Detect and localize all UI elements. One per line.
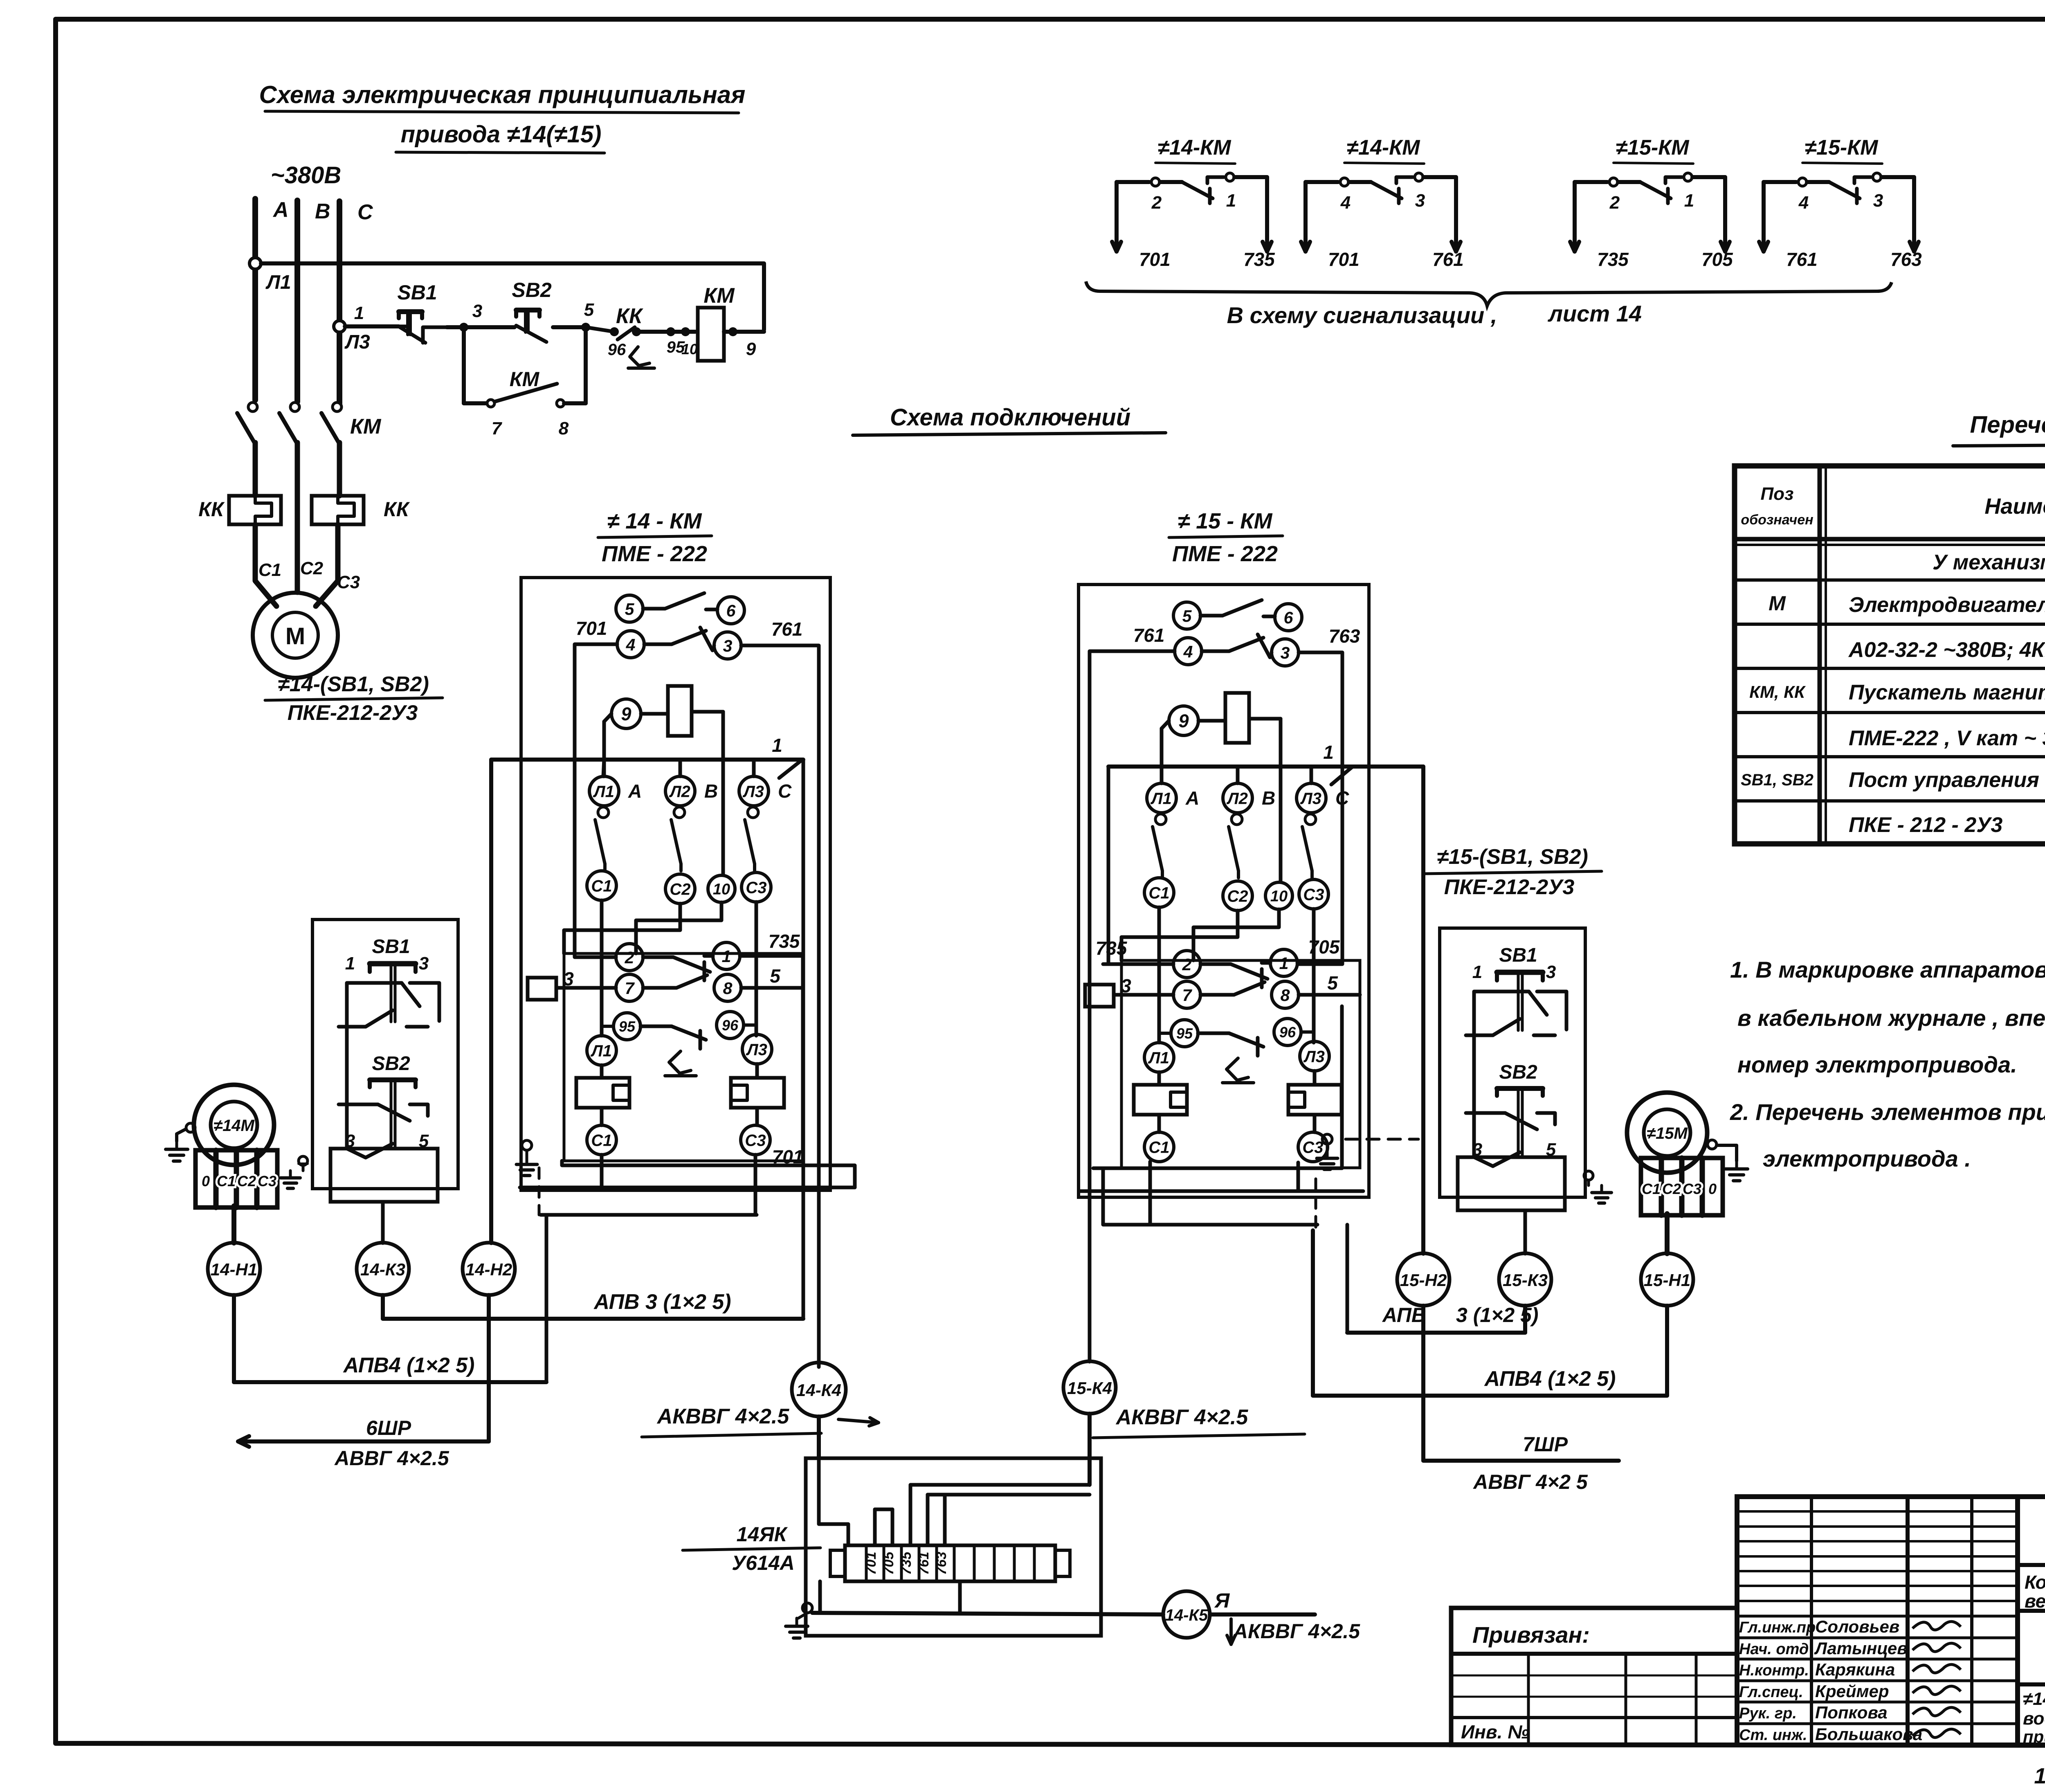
svg-text:Гл.инж.пр: Гл.инж.пр [1739,1619,1816,1636]
wire bus 1 (№15) to 15-Н2 [1108,742,1423,1254]
svg-text:Нач. отд: Нач. отд [1739,1641,1809,1658]
svg-text:КК: КК [198,498,225,521]
svg-text:735: 735 [1096,938,1128,959]
svg-text:Инв. №: Инв. № [1461,1721,1529,1743]
svg-text:SB1: SB1 [397,281,437,304]
ground pin right of №15 post [1584,1171,1611,1203]
svg-text:A: A [272,198,289,222]
svg-text:С1: С1 [217,1173,236,1189]
wire №14 post to 14-К3 [381,1202,385,1243]
terminal tab at bottom of post [330,1149,438,1202]
wire control rung [345,324,399,328]
wire phase C lower [337,443,342,496]
wires inside junction box from 15-К4 [910,1485,1090,1545]
svg-text:С: С [357,200,373,224]
≠14-КМ contact 5-6 [616,593,744,624]
svg-text:воды Схема электрическая: воды Схема электрическая [2023,1709,2045,1729]
wire SB1 to node 3 [447,325,464,329]
svg-text:701: 701 [1328,249,1360,270]
svg-text:2: 2 [1609,193,1620,213]
wire 7ШР run: 15-Н2 down and right [1423,1306,1619,1493]
svg-text:Н.контр.: Н.контр. [1739,1662,1809,1679]
auxiliary contact group ≠14-КМ (701/735) [1112,136,1275,270]
≠15-КМ terminals С1 С3 lower [1144,1115,1328,1162]
ground pin left of motor №14М [166,1123,195,1161]
svg-text:SB1: SB1 [372,936,410,958]
svg-text:735: 735 [769,931,800,952]
arrow at 14-К4 [838,1419,879,1423]
svg-text:Соловьев: Соловьев [1815,1617,1899,1636]
svg-text:АПВ 3 (1×2 5): АПВ 3 (1×2 5) [593,1290,731,1314]
svg-text:5: 5 [1182,607,1192,625]
≠14-КМ terminals С1 С2 10 С3 [587,871,771,904]
ground pin right of motor №15М [1708,1140,1748,1181]
svg-text:С2: С2 [1662,1180,1681,1197]
table row: ПМЕ-222 характеристики [1849,726,2045,751]
svg-text:4: 4 [1340,193,1351,213]
wire 735 exit left / 705 label (№15) [1096,936,1342,964]
svg-text:С1: С1 [591,877,612,895]
svg-text:М: М [1769,592,1786,615]
svg-text:2: 2 [625,948,634,967]
svg-text:9: 9 [1178,711,1189,731]
node 3 [459,323,468,332]
svg-text:14-Н1: 14-Н1 [211,1260,257,1279]
svg-text:Котельная с 4 котлами„Факел' и: Котельная с 4 котлами„Факел' и 2контактн… [2025,1572,2045,1593]
wire АПВ3 run (№14): 14-К3 to block [383,1290,803,1319]
svg-text:У механизма: У механизма [1933,551,2045,574]
svg-text:обозначен: обозначен [1741,512,1813,528]
svg-text:10: 10 [681,341,698,358]
svg-text:96: 96 [608,341,626,359]
svg-text:Л1: Л1 [590,1042,612,1060]
svg-text:7: 7 [625,979,635,998]
svg-text:3: 3 [1415,191,1425,211]
svg-text:Л3: Л3 [1300,789,1321,807]
svg-text:95: 95 [1176,1025,1193,1042]
≠15-КМ terminals С1 С2 10 С3 [1144,878,1328,911]
junction box 14ЯК У614А [806,1458,1101,1636]
terminal box of motor ≠14М [196,1150,277,1207]
svg-text:АКВВГ 4×2.5: АКВВГ 4×2.5 [656,1405,790,1428]
wire coil to bus [724,330,764,334]
svg-text:Поз: Поз [1761,484,1794,504]
svg-text:Схема подключений: Схема подключений [890,404,1130,431]
motor ≠14М [194,1085,274,1165]
svg-text:761: 761 [771,618,803,640]
wire phase B [294,200,300,402]
svg-text:≠15-КМ: ≠15-КМ [1805,136,1879,160]
wire junction box to 14-К5 [812,1581,1163,1614]
ground pin at №14 block bottom [517,1140,537,1176]
wires inside junction box from 14-К4 [819,1458,892,1545]
svg-text:0: 0 [1708,1180,1717,1197]
svg-text:A: A [628,780,642,802]
svg-text:1: 1 [1279,954,1289,973]
svg-text:5: 5 [584,300,594,320]
svg-text:6: 6 [1284,608,1294,627]
svg-text:С3: С3 [1302,1138,1323,1156]
svg-text:14-Н2: 14-Н2 [465,1260,512,1279]
wire net below №15 block [1080,962,1363,1359]
svg-text:Рук. гр.: Рук. гр. [1739,1705,1797,1722]
svg-text:В: В [315,200,330,223]
label №14-(SB1,SB2) / ПКЕ-212-2У3 [265,672,443,725]
auxiliary contact KM (principal) [464,327,586,438]
svg-text:С3: С3 [745,1131,766,1149]
wire motor №15М to 15-Н1 [1665,1214,1670,1254]
button SB1 [339,936,439,1027]
svg-text:2: 2 [1182,955,1192,974]
cable head 14-Н2 [463,1243,515,1295]
wire C2 down jog [564,904,680,953]
wire АПВ4 run (№14): 14-Н1 to block [234,1295,546,1382]
table title Перечень элементов [1953,411,2045,446]
title: Схема подключений [853,404,1166,435]
svg-text:Наименование: Наименование [1984,494,2045,519]
svg-text:2: 2 [1151,193,1162,213]
magnetic starter block ≠15-КМ ПМЕ-222 enclosure [1079,585,1369,1197]
svg-text:1: 1 [772,735,782,756]
title block: drawing name cell [2023,1689,2045,1746]
svg-text:735: 735 [1243,249,1275,270]
ground pin left of №14 post [281,1156,308,1188]
svg-text:≠14-КМ: ≠14-КМ [1347,136,1421,160]
wire bus 1 (№14) to 14-Н2 and 735 column [491,735,803,1243]
wire KK to KM coil [636,330,695,334]
cable head 14-Н1 [208,1243,260,1295]
≠15-КМ contact 5-6 [1173,600,1302,631]
svg-text:SB1: SB1 [1499,944,1537,966]
≠14-КМ contact 95-96 thermal [602,1012,756,1076]
wire 761 right corner down to 14-К4 (№14) [741,645,819,1367]
auxiliary contact group ≠15-КМ (761/763) [1759,136,1922,270]
svg-text:лист 14: лист 14 [1547,301,1642,326]
svg-text:4: 4 [1183,642,1193,661]
svg-text:1. В маркировке аппаратов ,: 1. В маркировке аппаратов , проводов , к… [1730,957,2045,983]
≠14-КМ inner contact box [564,953,802,1161]
wire bus stubs to Л terminals (№15) [1162,767,1311,783]
svg-text:С1: С1 [591,1131,612,1149]
svg-text:735: 735 [899,1551,914,1575]
≠15-КМ КК heater element left [1134,1085,1187,1115]
wire 735 exit right with label (№14) [740,931,803,956]
svg-text:763: 763 [934,1552,949,1575]
svg-text:SB2: SB2 [1499,1061,1537,1083]
svg-text:АВВГ 4×2 5: АВВГ 4×2 5 [1472,1470,1588,1493]
svg-text:763: 763 [1329,625,1360,647]
svg-text:5: 5 [770,965,781,987]
title block: стадия-лист-листов sub-table [2018,1611,2045,1684]
wire 701 left corner down (№14) [575,644,617,957]
ground pin at №15 block bottom [1317,1134,1338,1169]
svg-text:АПВ4 (1×2 5): АПВ4 (1×2 5) [1484,1367,1616,1391]
svg-text:96: 96 [1279,1024,1296,1041]
svg-text:КК: КК [384,498,410,521]
svg-text:~380В: ~380В [271,162,342,189]
svg-text:Л3: Л3 [344,331,370,353]
svg-text:Л1: Л1 [593,782,614,800]
svg-text:705: 705 [1308,936,1340,958]
svg-text:С2: С2 [1227,887,1248,905]
wire net below №14 block (С1/С3 to cable heads) [520,955,855,1382]
svg-text:≠ 15 - КМ: ≠ 15 - КМ [1178,509,1273,533]
svg-text:3: 3 [723,636,733,655]
svg-text:АКВВГ 4×2.5: АКВВГ 4×2.5 [1232,1620,1360,1643]
svg-text:15-Н2: 15-Н2 [1400,1270,1447,1290]
svg-text:ПКЕ-212-2У3: ПКЕ-212-2У3 [1444,875,1575,899]
svg-text:15-К3: 15-К3 [1503,1270,1548,1290]
wire phase A [252,199,258,400]
≠14-КМ contact 7-8 row with terminal tab [528,965,802,1001]
signature labels column [1739,1617,1922,1744]
svg-text:3: 3 [472,301,482,321]
contactor KM 3-pole power contacts [237,402,382,443]
svg-text:10: 10 [713,881,730,898]
svg-text:SB2: SB2 [512,279,551,301]
svg-text:1: 1 [722,947,731,966]
svg-text:Пост управления кнопочный: Пост управления кнопочный [1849,768,2045,792]
svg-text:763: 763 [1890,249,1922,270]
svg-text:10: 10 [1270,888,1288,905]
svg-text:4: 4 [626,635,636,654]
node Л1 junction [249,258,261,269]
svg-text:Ст. инж.: Ст. инж. [1739,1727,1807,1744]
label АКВВГ 4х2.5 (right) [1093,1405,1305,1438]
svg-text:0: 0 [202,1173,210,1189]
signatures squiggles [1912,1621,1961,1737]
motor ≠15М [1627,1093,1707,1173]
svg-text:С2: С2 [300,558,324,578]
svg-text:4: 4 [1798,193,1809,213]
svg-text:5: 5 [625,600,635,618]
svg-text:14-К5: 14-К5 [1165,1606,1208,1624]
table header texts [1741,484,2045,528]
svg-text:761: 761 [1432,249,1464,270]
svg-text:701: 701 [1139,249,1171,270]
wire heater A to motor [255,524,276,606]
wire Я outgoing with label [1210,1589,1360,1644]
svg-text:761: 761 [916,1552,932,1575]
≠15-КМ contact 95-96 thermal [1159,1019,1314,1083]
cable head 14-К4 [792,1362,846,1458]
svg-text:С: С [778,780,792,802]
svg-text:Л3: Л3 [742,782,764,800]
button SB2 [1466,1035,1556,1166]
svg-text:С: С [1335,787,1349,809]
svg-text:С3: С3 [337,572,360,592]
brace: to signalling circuit sheet 14 [1086,281,1892,328]
svg-text:Карякина: Карякина [1815,1660,1895,1679]
push-button post enclosure [1440,928,1585,1197]
label 14ЯК / У614А [683,1523,820,1574]
≠15-КМ КК heater element right [1288,1085,1342,1115]
svg-text:19733 - 07 16: 19733 - 07 16 [2034,1764,2045,1788]
≠14-КМ contact 4-3 with wire labels [576,618,803,659]
wire terminal 10 jog down-left [636,902,721,953]
svg-text:ПМЕ - 222: ПМЕ - 222 [602,542,707,566]
svg-text:7: 7 [492,418,503,438]
svg-text:1: 1 [1684,191,1694,211]
svg-text:КМ: КМ [510,368,540,391]
svg-text:6ШР: 6ШР [366,1417,411,1439]
svg-text:АВВГ 4×2.5: АВВГ 4×2.5 [334,1447,449,1470]
svg-text:ПКЕ - 212 - 2У3: ПКЕ - 212 - 2У3 [1849,813,2002,837]
push-button post enclosure [312,920,458,1189]
svg-text:95: 95 [619,1018,636,1035]
wire column C1 down [1157,907,1161,1043]
svg-text:3: 3 [1873,191,1883,211]
svg-text:14ЯК: 14ЯК [737,1523,788,1546]
≠15-КМ pole contacts below Л terminals [1153,814,1316,878]
svg-text:АПВ4 (1×2 5): АПВ4 (1×2 5) [343,1354,475,1377]
wire column C1 down [600,900,604,1036]
cable head 14-К3 [357,1243,409,1295]
svg-text:В схему сигнализации ,: В схему сигнализации , [1227,302,1497,328]
svg-text:С3: С3 [746,879,766,897]
table row: КМ КК Пускатель магнитный [1749,681,2045,704]
thermal contact KK (principal) [586,304,685,368]
svg-text:SB2: SB2 [372,1053,410,1075]
wire column C3 down [755,902,758,1036]
svg-text:Я: Я [1214,1589,1230,1612]
≠14-КМ contact 2-1 row [616,942,740,980]
button SB2 [339,1027,429,1158]
thermal relay KK heater (phase C) [312,496,410,524]
wire 763 right corner down (№15) [1299,652,1342,964]
svg-text:Л2: Л2 [1226,789,1248,807]
wire phase A lower [253,443,258,496]
label №15-(SB1,SB2) / ПКЕ-212-2У3 [1424,845,1602,899]
auxiliary contact group ≠15-КМ (735/705) [1570,136,1733,270]
≠15-КМ terminals Л1 Л2 Л3 with phase labels [1147,783,1349,813]
≠15-КМ terminal 9 and coil wires [1162,706,1281,881]
motor M (principal schema) [253,593,338,678]
cable head 15-К3 [1499,1253,1551,1306]
≠15-КМ coil [1225,693,1249,743]
svg-text:3 (1×2 5): 3 (1×2 5) [1456,1304,1539,1327]
wire АПВ4 run (№15): 15-Н1 down and left [1313,1230,1667,1396]
≠14-КМ pole contacts below Л terminals [595,807,758,871]
pushbutton SB1 (principal) [397,281,447,343]
≠14-КМ terminals С1 С3 lower [587,1108,770,1155]
wire terminal 10 jog down-left [1193,909,1279,960]
≠15-КМ contact 4-3 with wire labels [1133,625,1360,666]
svg-text:С1: С1 [1148,1138,1169,1156]
button SB1 [1466,944,1566,1035]
svg-text:Л1: Л1 [1150,789,1172,807]
≠15-КМ inner contact box [1121,960,1360,1168]
svg-text:У614А: У614А [732,1551,794,1574]
node 5 [581,323,590,332]
svg-text:принципиальнаяСхема подключени: принципиальнаяСхема подключений [2023,1727,2045,1746]
dashed wire at №14 block bottom [538,1168,541,1215]
svg-text:8: 8 [1281,986,1290,1005]
svg-text:привода ≠14(≠15): привода ≠14(≠15) [401,121,602,148]
≠15-КМ terminals Л1 Л3 lower [1144,1041,1329,1085]
svg-text:Попкова: Попкова [1815,1703,1888,1722]
svg-text:В: В [704,780,718,802]
≠14-КМ coil [668,686,692,736]
svg-text:АКВВГ 4×2.5: АКВВГ 4×2.5 [1115,1405,1249,1429]
svg-text:9: 9 [746,339,756,359]
svg-text:15-Н1: 15-Н1 [1644,1270,1690,1290]
title: Схема электрическая принципиальная привода №14(№15) [259,81,746,153]
cable head 15-Н2 [1397,1253,1449,1306]
svg-text:Перечень элементов: Перечень элементов [1970,411,2045,438]
magnetic starter block ≠14-КМ ПМЕ-222 enclosure [521,578,830,1190]
svg-text:Большакова: Большакова [1815,1725,1922,1744]
svg-text:8: 8 [559,418,569,438]
svg-text:Латынцев: Латынцев [1814,1639,1908,1658]
svg-text:1: 1 [1323,742,1334,763]
table row: SB1 SB2 Пост управления кнопочный [1741,768,2045,792]
svg-text:≠14(≠15)-Насос контактной: ≠14(≠15)-Насос контактной [2023,1689,2045,1709]
svg-text:КМ: КМ [350,415,382,438]
svg-text:Схема электрическая принципи: Схема электрическая принципиальная [259,81,746,108]
svg-text:1: 1 [1472,962,1482,982]
svg-text:≠14М: ≠14М [213,1117,255,1135]
≠15-КМ contact 2-1 row [1173,949,1297,987]
svg-text:М: М [285,623,305,650]
terminal box of motor ≠15М [1641,1158,1723,1215]
svg-text:7: 7 [1182,986,1193,1005]
svg-text:электропривода .: электропривода . [1763,1146,1971,1171]
title block: ТП 903-1-213.84-ЭМ cell [2018,1516,2045,1565]
pushbutton SB2 (principal) [464,279,586,342]
node Л3 junction [334,321,345,332]
svg-text:6: 6 [726,601,736,620]
wire 6ШР run: 14-Н2 down and left [238,1295,489,1470]
svg-text:3: 3 [1546,962,1556,982]
title block frame and signature grid [1737,1497,2045,1745]
svg-text:705: 705 [1701,249,1733,270]
svg-text:КМ, КК: КМ, КК [1749,682,1806,702]
table row: А02-32-2 характеристики [1848,638,2045,662]
svg-text:7ШР: 7ШР [1523,1433,1568,1456]
svg-text:КМ: КМ [703,284,735,308]
svg-text:≠15-(SB1, SB2): ≠15-(SB1, SB2) [1437,845,1588,869]
svg-text:96: 96 [722,1017,739,1034]
svg-text:14-К4: 14-К4 [796,1381,841,1400]
wire control bus from Л1 to KM coil branch [261,263,764,330]
cable head 14-К5 [1163,1591,1210,1638]
svg-text:2. Перечень элементов приве: 2. Перечень элементов приведен для одног… [1730,1099,2045,1125]
svg-text:A: A [1185,787,1199,809]
svg-text:3: 3 [419,953,429,974]
svg-text:761: 761 [1133,625,1165,646]
svg-text:3: 3 [1281,643,1290,662]
svg-text:С3: С3 [1683,1180,1701,1197]
svg-text:верхностными водонагревателями: верхностными водонагревателями ФНКВ -1М [2025,1590,2045,1612]
svg-text:Привязан:: Привязан: [1472,1622,1590,1648]
wire phase B lower [295,443,300,592]
svg-text:С3: С3 [1303,886,1324,904]
svg-text:≠14-(SB1, SB2): ≠14-(SB1, SB2) [278,672,429,696]
label №15-КМ / ПМЕ-222 [1169,509,1283,566]
svg-text:в кабельном журнале , вперед: в кабельном журнале , впереди проставляе… [1737,1005,2045,1031]
thermal relay KK heater (phase A) [198,496,281,524]
svg-text:1: 1 [1226,191,1236,211]
label №14-КМ / ПМЕ-222 [598,509,712,566]
wire bus stubs to Л terminals (№14) [603,760,754,776]
title block: object name cell [2018,1572,2045,1612]
svg-text:А02-32-2 ~380В; 4КВТ ; 8А: А02-32-2 ~380В; 4КВТ ; 8А [1848,638,2045,662]
table row: ПКЕ-212-2У3 [1849,813,2045,837]
svg-text:761: 761 [1786,249,1818,270]
svg-text:≠14-КМ: ≠14-КМ [1158,136,1232,160]
svg-text:15-К4: 15-К4 [1067,1378,1112,1398]
